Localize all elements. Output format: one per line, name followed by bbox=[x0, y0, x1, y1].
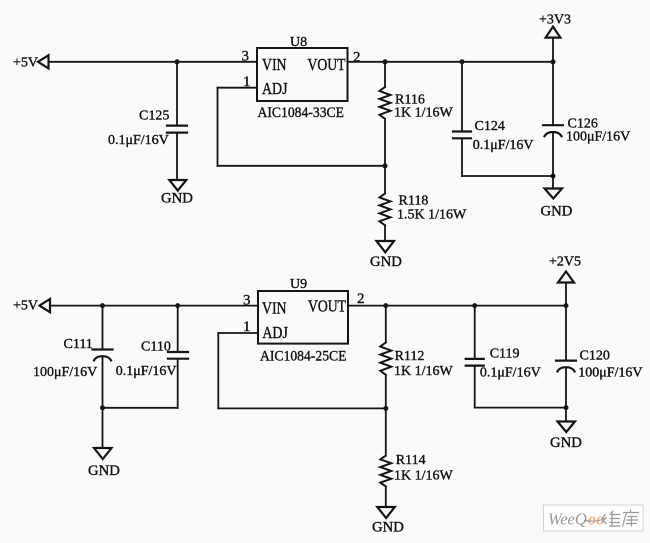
svg-text:GND: GND bbox=[88, 463, 120, 479]
wire down to C110 bbox=[177, 306, 179, 351]
svg-text:C119: C119 bbox=[490, 347, 520, 362]
wire to GND symbol (bottom rail) bbox=[565, 408, 567, 421]
pin 1 label (U9) bbox=[243, 319, 251, 335]
svg-text:GND: GND bbox=[161, 191, 193, 207]
svg-text:GND: GND bbox=[541, 204, 573, 220]
svg-text:AIC1084-25CE: AIC1084-25CE bbox=[260, 349, 347, 365]
ground (R118) bbox=[377, 241, 395, 252]
svg-text:C124: C124 bbox=[475, 119, 505, 134]
pin 2 label (U8) bbox=[353, 50, 361, 66]
wire C124 to bottom rail bbox=[461, 139, 463, 176]
wire R118 to GND bbox=[384, 225, 386, 240]
pin 3 label (U8) bbox=[242, 49, 250, 65]
node junction at C110 bbox=[175, 303, 180, 308]
capacitor C119 bbox=[466, 359, 484, 366]
+3V3 power arrow bbox=[546, 27, 561, 38]
node junction bottom rail (C111) bbox=[100, 405, 105, 410]
resistor R116 bbox=[380, 87, 391, 119]
wire C124 branch down bbox=[461, 62, 463, 131]
wire VOUT pin2 to +2V5 rail bbox=[348, 305, 566, 307]
node +3V3 label bbox=[539, 13, 571, 28]
svg-text:3: 3 bbox=[242, 49, 250, 65]
svg-text:0.1μF/16V: 0.1μF/16V bbox=[480, 366, 541, 381]
svg-text:1K 1/16W: 1K 1/16W bbox=[394, 469, 454, 484]
capacitor C126 (polarized) bbox=[543, 125, 563, 136]
svg-text:U9: U9 bbox=[290, 277, 307, 292]
svg-text:WeeQ: WeeQ bbox=[548, 510, 587, 529]
+5V power arrow (bottom) bbox=[40, 299, 51, 312]
wire VOUT down to R116 bbox=[384, 62, 386, 87]
svg-text:0.1μF/16V: 0.1μF/16V bbox=[116, 364, 177, 379]
svg-text:GND: GND bbox=[550, 435, 582, 451]
ground (R114) bbox=[377, 507, 395, 518]
node +5V (top) label bbox=[13, 56, 38, 71]
svg-text:0.1μF/16V: 0.1μF/16V bbox=[108, 133, 169, 148]
svg-text:100μF/16V: 100μF/16V bbox=[566, 130, 630, 145]
capacitor C111 (polarized) bbox=[93, 350, 113, 361]
resistor R112 bbox=[380, 343, 391, 375]
node junction bottom rail bbox=[551, 174, 556, 179]
svg-text:GND: GND bbox=[372, 520, 404, 536]
wire C120 to bottom rail bbox=[565, 367, 567, 407]
node junction at C124 bbox=[460, 59, 465, 64]
node junction at C119 bbox=[472, 303, 477, 308]
wire ADJ pin1 (U9) bbox=[218, 332, 258, 334]
ground (bottom rail) bbox=[558, 422, 576, 433]
ground (C125) bbox=[169, 180, 186, 191]
svg-text:1.5K 1/16W: 1.5K 1/16W bbox=[397, 208, 467, 223]
svg-text:VIN: VIN bbox=[262, 299, 287, 318]
svg-text:AIC1084-33CE: AIC1084-33CE bbox=[258, 105, 345, 121]
svg-text:+3V3: +3V3 bbox=[539, 13, 571, 28]
wire ADJ feedback down bbox=[217, 88, 219, 166]
svg-text:1K 1/16W: 1K 1/16W bbox=[394, 106, 454, 121]
+5V power arrow (top) bbox=[38, 55, 49, 68]
svg-text:0.1μF/16V: 0.1μF/16V bbox=[473, 138, 534, 153]
watermark box WeeQoo bbox=[544, 505, 644, 531]
wire ADJ feedback horizontal (U9) bbox=[218, 407, 385, 409]
svg-text:ADJ: ADJ bbox=[262, 79, 288, 98]
wire C125 to GND bbox=[176, 134, 178, 179]
regulator IC U9 box bbox=[258, 291, 348, 344]
wire VOUT pin2 to +3V3 rail bbox=[348, 61, 554, 63]
svg-text:VIN: VIN bbox=[262, 55, 287, 74]
svg-text:2: 2 bbox=[357, 291, 365, 307]
svg-text:C111: C111 bbox=[64, 337, 93, 352]
node junction at C125 bbox=[175, 59, 180, 64]
wire C119 branch down bbox=[474, 306, 476, 358]
pin 3 label (U9) bbox=[243, 293, 251, 309]
ground (top rail) bbox=[545, 189, 563, 199]
wire junction down to C125 bbox=[176, 62, 178, 125]
svg-text:U8: U8 bbox=[290, 35, 307, 50]
wire VOUT down to R112 bbox=[385, 306, 387, 343]
wire node to R114 bbox=[385, 408, 387, 455]
pin 1 label (U8) bbox=[243, 74, 251, 90]
svg-text:100μF/16V: 100μF/16V bbox=[578, 366, 642, 381]
svg-text:ADJ: ADJ bbox=[262, 323, 288, 342]
wire +5V to VIN pin3 (U9) bbox=[50, 305, 258, 307]
wire rail down to C120 bbox=[565, 306, 567, 360]
wire C119 to bottom rail bbox=[474, 367, 476, 408]
wire bottom rail C124-C126 bbox=[462, 175, 553, 177]
svg-text:R112: R112 bbox=[395, 349, 425, 364]
wire bottom rail C119-C120 bbox=[475, 407, 566, 409]
wire +2V5 down to rail bbox=[565, 283, 567, 306]
+2V5 power arrow bbox=[558, 272, 574, 283]
node +2V5 label bbox=[549, 254, 581, 269]
node junction R116/R118/ADJ bbox=[383, 163, 388, 168]
node junction at C111 bbox=[100, 303, 105, 308]
svg-text:VOUT: VOUT bbox=[308, 297, 346, 316]
node +5V (bottom) label bbox=[13, 299, 38, 314]
svg-text:+5V: +5V bbox=[13, 299, 38, 314]
wire ADJ pin1 bbox=[218, 87, 258, 89]
wire C126 to bottom rail bbox=[552, 132, 554, 176]
wire R116 to feedback node bbox=[384, 119, 386, 166]
svg-text:R114: R114 bbox=[396, 453, 426, 468]
capacitor C125 bbox=[167, 126, 187, 133]
capacitor C110 bbox=[168, 352, 188, 359]
resistor R114 bbox=[380, 456, 391, 487]
svg-text:C125: C125 bbox=[139, 109, 169, 124]
wire +3V3 down to rail bbox=[552, 38, 554, 62]
wire node to R118 bbox=[384, 166, 386, 194]
svg-text:R118: R118 bbox=[399, 194, 429, 209]
node junction at R112 bbox=[383, 303, 388, 308]
svg-text:100μF/16V: 100μF/16V bbox=[33, 365, 97, 380]
node junction at +3V3/C126 bbox=[551, 59, 556, 64]
svg-text:2: 2 bbox=[353, 50, 361, 66]
regulator IC U8 box bbox=[257, 48, 348, 101]
node junction at R116 bbox=[383, 59, 388, 64]
wire rail down to C126 bbox=[552, 62, 554, 124]
node junction R112/R114/ADJ bbox=[383, 406, 388, 411]
wire ADJ feedback down (U9) bbox=[217, 333, 219, 408]
wire C111 to bottom rail bbox=[102, 356, 104, 408]
resistor R118 bbox=[380, 194, 391, 226]
capacitor C120 (polarized) bbox=[556, 361, 576, 372]
svg-text:GND: GND bbox=[370, 254, 402, 270]
wire R112 to feedback node bbox=[385, 375, 387, 409]
node junction bottom rail (C120) bbox=[564, 405, 569, 410]
wire ADJ feedback horizontal bbox=[218, 165, 386, 167]
wire bottom rail C111-C110 bbox=[103, 407, 178, 409]
svg-text:1K 1/16W: 1K 1/16W bbox=[394, 364, 454, 379]
svg-text:3: 3 bbox=[243, 293, 251, 309]
wire down to GND (C111) bbox=[102, 408, 104, 448]
wire +5V to VIN pin3 bbox=[49, 61, 258, 63]
svg-text:+5V: +5V bbox=[13, 56, 38, 71]
wire C110 to bottom rail bbox=[177, 360, 179, 408]
svg-text:C110: C110 bbox=[141, 340, 171, 355]
wire to GND symbol bbox=[552, 176, 554, 188]
svg-text:VOUT: VOUT bbox=[308, 55, 346, 74]
capacitor C124 bbox=[453, 132, 471, 139]
wire R114 to GND bbox=[385, 487, 387, 507]
svg-text:C120: C120 bbox=[580, 349, 610, 364]
pin 2 label (U9) bbox=[357, 291, 365, 307]
svg-text:+2V5: +2V5 bbox=[549, 254, 581, 269]
wire down to C111 bbox=[102, 306, 104, 349]
ground (C111/C110) bbox=[94, 448, 112, 459]
node junction at +2V5/C120 bbox=[564, 303, 569, 308]
